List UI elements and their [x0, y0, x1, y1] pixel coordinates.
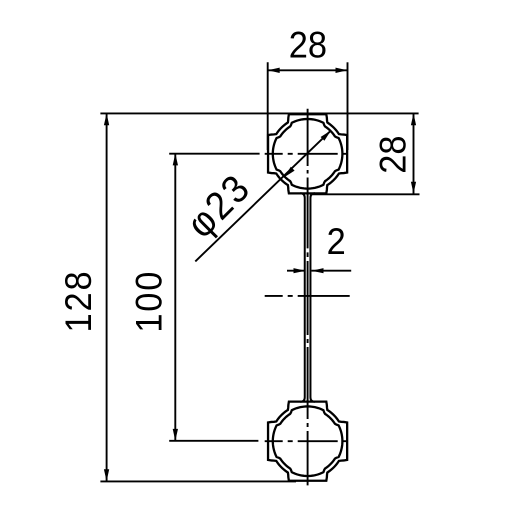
inner bore contour of bottom tube	[273, 406, 343, 476]
dimension 2: right leader with arrow	[312, 270, 352, 272]
svg-text:28: 28	[372, 135, 413, 173]
inner bore contour of top tube (phi 23)	[273, 119, 343, 189]
svg-text:128: 128	[58, 270, 99, 333]
mid-height centerline mark across web	[265, 295, 352, 297]
dimension 128: bottom extension line	[100, 480, 296, 482]
dimension 28 top: arrowheads	[268, 68, 280, 73]
dimension 2: left leader with arrow	[287, 270, 306, 272]
vertical centerline through both tubes	[307, 109, 309, 486]
svg-text:2: 2	[327, 221, 346, 262]
dimension 128: arrowheads	[104, 113, 109, 125]
outer contour of bottom tube profile	[268, 402, 347, 481]
svg-text:100: 100	[128, 270, 169, 333]
dimension 28 top: extension lines	[267, 62, 269, 150]
dimension 100: dimension line	[174, 153, 176, 441]
horizontal centerline of top tube	[265, 153, 353, 155]
dimension 28 right: extension lines	[100, 112, 418, 114]
dimension 100: extension lines	[169, 153, 259, 155]
outer contour of top tube profile	[268, 114, 347, 193]
svg-text:28: 28	[289, 25, 327, 66]
dimension phi23: arrowheads at bore	[321, 130, 331, 140]
dimension 128: dimension line	[106, 113, 108, 481]
dimension 28 right: arrowheads	[411, 113, 416, 125]
web right wall	[310, 193, 315, 402]
web left wall	[300, 193, 305, 402]
dimension phi23: diagonal leader line	[195, 130, 331, 261]
dimension 28 right: dimension line	[413, 113, 415, 194]
svg-text:φ23: φ23	[178, 165, 259, 246]
horizontal centerline of bottom tube	[265, 440, 353, 442]
dimension 100: arrowheads	[173, 153, 178, 165]
dimension 28 top: dimension line	[268, 69, 348, 71]
